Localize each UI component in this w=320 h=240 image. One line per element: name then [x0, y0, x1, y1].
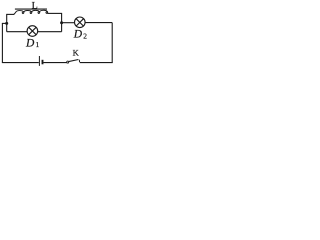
battery long plate [38, 56, 40, 66]
wire left inner vertical (top corner to D1 branch) [6, 14, 8, 32]
wire switch to bottom right [80, 62, 113, 64]
wire left outer vertical [1, 23, 3, 62]
wire right riser (top wire down to node B and D1 level) [61, 13, 63, 31]
wire D2 branch right segment [85, 22, 112, 24]
wire node A stub to outer left [2, 22, 7, 24]
lamp D1 [27, 26, 38, 37]
wire top-right horizontal (coil to riser) [47, 12, 62, 14]
battery short plate [42, 60, 44, 65]
inductor L coil loops [14, 10, 49, 14]
wire D2 branch left segment [62, 22, 75, 24]
wire battery to switch [43, 62, 66, 64]
node B junction dot [60, 21, 63, 24]
switch K lever [69, 60, 79, 62]
svg-text:1: 1 [36, 40, 40, 49]
svg-text:K: K [73, 48, 80, 58]
svg-text:2: 2 [83, 31, 87, 40]
wire top-left horizontal [7, 13, 15, 15]
switch K fixed contact [78, 60, 80, 63]
inductor L core line [15, 8, 47, 10]
lamp D2 [75, 17, 86, 28]
wire right vertical [111, 23, 113, 63]
svg-text:D: D [25, 37, 35, 49]
switch K pivot circle [67, 61, 69, 63]
wire D1 branch left segment [7, 31, 28, 33]
svg-text:D: D [73, 28, 83, 40]
svg-text:L: L [32, 0, 38, 11]
node A junction dot [5, 22, 8, 25]
wire D1 branch right segment [38, 31, 62, 33]
wire bottom left segment (to battery) [2, 62, 39, 64]
